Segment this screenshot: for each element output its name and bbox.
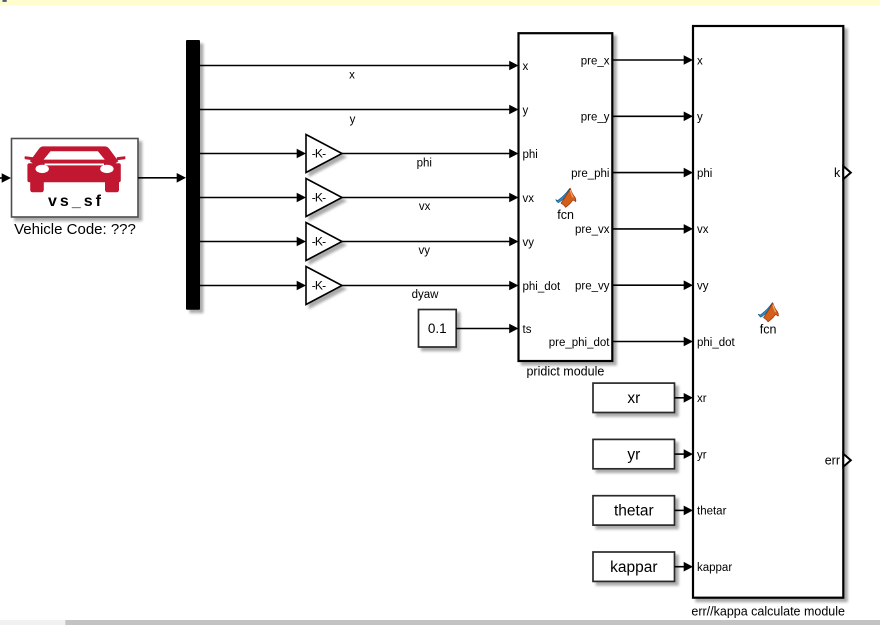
- svg-text:phi: phi: [697, 168, 712, 180]
- wire pre_phi_dot: [612, 337, 693, 347]
- top yellow toolbar strip: [0, 0, 880, 6]
- svg-text:pre_phi: pre_phi: [571, 168, 609, 180]
- svg-text:err//kappa calculate module: err//kappa calculate module: [691, 605, 845, 619]
- svg-text:fcn: fcn: [760, 323, 777, 337]
- output port k: [834, 166, 851, 180]
- pridict port labels (outputs): [549, 55, 611, 349]
- svg-text:pre_x: pre_x: [581, 55, 610, 67]
- wire xr: [675, 393, 694, 403]
- wire mux to gain K2: [200, 193, 306, 203]
- svg-text:0.1: 0.1: [428, 321, 447, 336]
- svg-text:-K-: -K-: [312, 235, 326, 249]
- svg-text:kappar: kappar: [610, 559, 657, 576]
- block err//kappa calculate module: [693, 26, 843, 598]
- bottom scrollbar thumb: [65, 620, 880, 625]
- wire mux to gain K4: [200, 281, 306, 291]
- svg-text:x: x: [523, 61, 529, 73]
- wire pre_phi: [612, 168, 693, 178]
- wire vy: [342, 237, 519, 247]
- svg-text:x: x: [349, 70, 355, 82]
- pridict port labels (inputs): [523, 61, 562, 336]
- wire vx: [342, 193, 519, 203]
- svg-text:y: y: [523, 105, 529, 117]
- svg-text:yr: yr: [697, 449, 707, 461]
- wire into vs_sf: [0, 173, 11, 183]
- svg-text:thetar: thetar: [614, 503, 654, 520]
- svg-text:-K-: -K-: [312, 191, 326, 205]
- svg-text:k: k: [834, 166, 841, 180]
- wire thetar: [675, 506, 694, 516]
- svg-text:phi: phi: [417, 158, 432, 170]
- bottom scrollbar track: [0, 620, 65, 625]
- gain K2: [306, 179, 342, 217]
- wire mux to gain K1: [200, 149, 306, 159]
- svg-text:pridict module: pridict module: [526, 365, 604, 379]
- svg-text:y: y: [697, 112, 703, 124]
- car icon: [25, 146, 126, 192]
- source block xr: [593, 383, 675, 412]
- svg-text:err: err: [825, 454, 840, 468]
- source block kappar: [593, 552, 675, 581]
- output port err: [825, 454, 851, 468]
- svg-text:vy: vy: [697, 281, 709, 293]
- wire mux to gain K3: [200, 237, 306, 247]
- wire vs_sf to mux: [138, 173, 186, 183]
- gain K4: [306, 267, 342, 305]
- wire ts: [456, 324, 518, 334]
- svg-text:phi_dot: phi_dot: [523, 281, 562, 293]
- svg-text:y: y: [350, 114, 356, 126]
- svg-text:vx: vx: [523, 193, 535, 205]
- svg-text:vy: vy: [523, 237, 535, 249]
- svg-text:vx: vx: [419, 201, 431, 213]
- source block yr: [593, 439, 675, 468]
- wire dyaw: [342, 281, 519, 291]
- gain K3: [306, 223, 342, 261]
- svg-text:kappar: kappar: [697, 562, 732, 574]
- svg-text:-K-: -K-: [312, 279, 326, 293]
- svg-text:pre_y: pre_y: [581, 112, 610, 124]
- err block port labels (inputs): [697, 55, 736, 574]
- wire pre_y: [612, 112, 693, 122]
- wire pre_x: [612, 55, 693, 65]
- source block thetar: [593, 496, 675, 525]
- svg-text:ts: ts: [523, 324, 532, 336]
- wire pre_vy: [612, 280, 693, 290]
- block pridict module: [519, 33, 613, 361]
- svg-text:phi: phi: [523, 149, 538, 161]
- svg-text:vy: vy: [419, 245, 431, 257]
- svg-text:vs_sf: vs_sf: [48, 193, 104, 210]
- constant 0.1: [419, 310, 457, 348]
- svg-text:thetar: thetar: [697, 506, 727, 518]
- svg-text:pre_phi_dot: pre_phi_dot: [549, 337, 611, 349]
- svg-text:-K-: -K-: [312, 147, 326, 161]
- wire yr: [675, 449, 694, 459]
- svg-text:fcn: fcn: [557, 208, 574, 222]
- toolbar icon fragment: [3, 0, 7, 2]
- svg-text:dyaw: dyaw: [412, 289, 440, 301]
- mux bar: [186, 40, 200, 310]
- pridict fcn logo: [556, 188, 576, 207]
- svg-text:pre_vx: pre_vx: [575, 224, 610, 236]
- wire y: [200, 105, 519, 115]
- svg-text:phi_dot: phi_dot: [697, 337, 736, 349]
- wire pre_vx: [612, 224, 693, 234]
- svg-text:pre_vy: pre_vy: [575, 281, 610, 293]
- wire kappar: [675, 562, 694, 572]
- wire x: [200, 61, 519, 71]
- svg-text:x: x: [697, 55, 703, 67]
- svg-text:Vehicle Code: ???: Vehicle Code: ???: [14, 221, 136, 238]
- svg-text:yr: yr: [627, 446, 640, 463]
- svg-text:vx: vx: [697, 224, 709, 236]
- block vs_sf: [12, 139, 139, 218]
- svg-text:xr: xr: [697, 393, 707, 405]
- gain K1: [306, 135, 342, 173]
- svg-text:xr: xr: [627, 390, 640, 407]
- wire phi: [342, 149, 519, 159]
- err block fcn logo: [758, 303, 778, 322]
